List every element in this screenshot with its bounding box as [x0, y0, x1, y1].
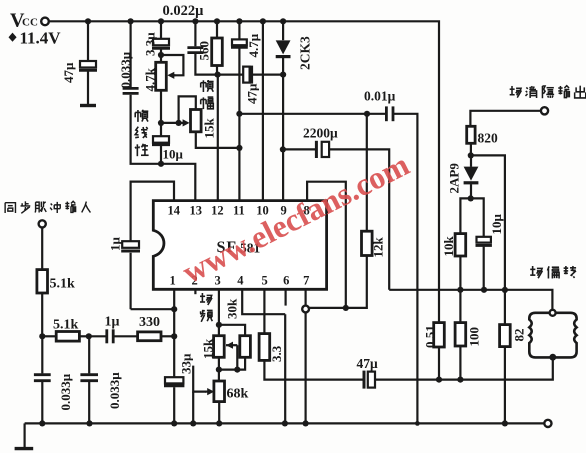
svg-text:13: 13	[190, 204, 203, 218]
svg-text:10μ: 10μ	[163, 147, 184, 162]
svg-text:2CK3: 2CK3	[298, 36, 313, 70]
svg-text:33μ: 33μ	[179, 353, 194, 374]
svg-text:47μ: 47μ	[61, 62, 76, 83]
svg-text:1μ: 1μ	[108, 237, 123, 252]
svg-text:12: 12	[211, 204, 224, 218]
svg-text:15k: 15k	[202, 118, 217, 139]
svg-text:5.1k: 5.1k	[53, 318, 79, 333]
svg-text:820: 820	[478, 131, 499, 146]
svg-text:CC: CC	[22, 17, 38, 29]
svg-text:10μ: 10μ	[489, 214, 504, 235]
svg-text:10k: 10k	[441, 236, 456, 257]
svg-text:5: 5	[261, 274, 267, 288]
svg-text:0.033μ: 0.033μ	[118, 51, 133, 88]
svg-text:2200μ: 2200μ	[303, 126, 338, 141]
svg-text:47μ: 47μ	[245, 83, 260, 104]
svg-text:3.3: 3.3	[269, 345, 284, 362]
svg-text:560: 560	[197, 41, 212, 61]
svg-text:1μ: 1μ	[105, 315, 120, 330]
svg-text:4.7μ: 4.7μ	[246, 33, 261, 57]
svg-text:0.033μ: 0.033μ	[58, 373, 73, 410]
svg-text:15k: 15k	[201, 338, 216, 359]
svg-text:30k: 30k	[225, 298, 240, 319]
svg-text:68k: 68k	[227, 387, 249, 402]
svg-text:100: 100	[467, 327, 482, 347]
svg-text:5.1k: 5.1k	[50, 277, 76, 292]
svg-text:0.01μ: 0.01μ	[364, 89, 396, 104]
svg-text:2AP9: 2AP9	[447, 163, 462, 194]
svg-text:7: 7	[303, 274, 309, 288]
svg-text:0.51: 0.51	[423, 325, 438, 348]
svg-text:82: 82	[512, 329, 527, 342]
svg-text:1: 1	[169, 274, 175, 288]
svg-text:0.033μ: 0.033μ	[107, 372, 122, 409]
svg-text:12k: 12k	[371, 237, 386, 258]
svg-text:0.022μ: 0.022μ	[163, 3, 205, 19]
svg-text:330: 330	[139, 315, 160, 330]
svg-text:11.4V: 11.4V	[20, 29, 62, 48]
svg-text:4.7k: 4.7k	[143, 67, 158, 91]
svg-text:4: 4	[237, 274, 244, 288]
svg-text:6: 6	[283, 274, 289, 288]
svg-text:3.3μ: 3.3μ	[143, 32, 158, 56]
svg-text:47μ: 47μ	[357, 356, 379, 371]
svg-text:14: 14	[168, 204, 181, 218]
svg-text:11: 11	[233, 204, 245, 218]
